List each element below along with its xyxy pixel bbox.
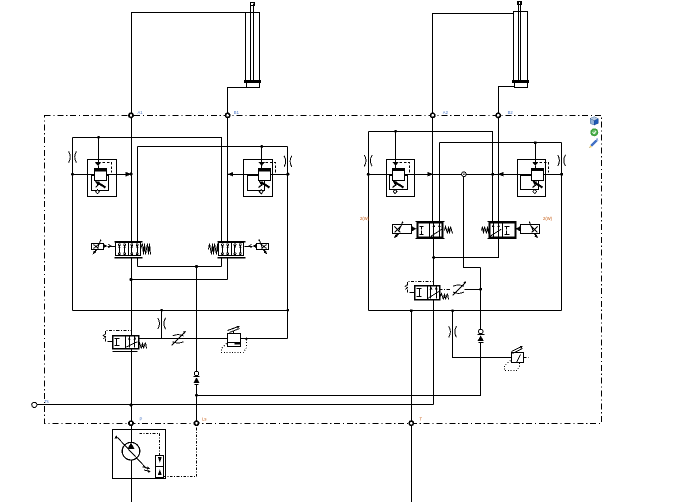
directional valve DV2 top plate (218, 241, 246, 243)
spring unloader (139, 343, 147, 349)
hydraulic cylinder CYL1 barrel (246, 13, 260, 82)
wire bleed rail right (241, 338, 288, 340)
wire pilot feed into compensator CV3 (395, 132, 397, 163)
node B2 border crossing (496, 113, 500, 117)
wire pump riser P1 (131, 280, 133, 336)
compensator valve CV1 (88, 160, 117, 197)
unloader valve body (113, 336, 139, 349)
wire tank rail (37, 404, 434, 406)
wire left group inner crossover (138, 146, 288, 148)
orifice bleed (158, 318, 160, 329)
wire CYL2 rod-side line A2 (433, 14, 514, 223)
solenoid actuator DV1 (92, 244, 104, 250)
wire pump outlet up (131, 430, 133, 443)
orifice right group left edge (364, 155, 366, 166)
solenoid valve SV1 body (418, 223, 443, 238)
spring SV1 (445, 227, 453, 234)
wire orifice drop (161, 311, 163, 339)
pump regulator valves (156, 456, 164, 467)
wire LS gallery (138, 266, 222, 268)
wire left group right edge (287, 147, 289, 339)
wire check riser (480, 268, 482, 330)
node B1 border crossing (226, 113, 230, 117)
wire bleed rail (139, 338, 228, 340)
compensator valve CV3 (387, 160, 415, 197)
node LS tee (195, 394, 198, 397)
pump flow triangle (127, 443, 134, 449)
orifice left group left edge (69, 151, 71, 162)
node feed tick CV1 (97, 136, 100, 139)
node feed tick CV2 (260, 145, 263, 148)
check valve right (478, 329, 483, 334)
svg-text:B2: B2 (508, 110, 514, 115)
wire CYL1 cap-side line B1 (228, 88, 247, 242)
solenoid valve SV2 plates (488, 221, 517, 223)
reducing valve RV1 (228, 334, 241, 347)
solenoid actuator SV1 (393, 225, 412, 234)
wire left group top crossover (73, 138, 222, 242)
orifice right group right edge (558, 155, 560, 166)
wire compensator rail left (73, 174, 132, 176)
wire compensator rail right group (369, 174, 562, 176)
wire compensator rail right (228, 174, 288, 176)
node compensator rail at A1 (130, 173, 133, 176)
arrowhead comp rail B2 (498, 172, 504, 177)
node tank rail crossing (130, 404, 133, 407)
node comp rail right edge (560, 173, 563, 176)
icon green badge (590, 128, 598, 136)
directional valve DV1 bottom plate (115, 257, 143, 259)
node feed tick CV3 (394, 130, 397, 133)
wire CYL2 cap-side line B2 (499, 87, 515, 223)
wire right group bottom edge (369, 310, 562, 312)
wire pump riser below unloader (131, 349, 133, 430)
icon cube (590, 117, 598, 126)
node A2 border crossing (431, 113, 435, 117)
svg-text:B1: B1 (234, 110, 240, 115)
svg-text:A2: A2 (443, 110, 449, 115)
svg-text:2(W): 2(W) (543, 216, 553, 221)
arrowhead compensator rail right (228, 172, 234, 177)
wire plug drop (464, 177, 481, 268)
relief valve RV2 (512, 353, 524, 363)
wire right group top crossover (369, 132, 493, 223)
wire SV2 bottom port (434, 238, 499, 258)
wire LS line down (196, 267, 198, 372)
node T drain border (409, 421, 413, 425)
pilot loop RV2 (505, 361, 520, 371)
node orifice drop tick (160, 309, 163, 312)
directional valve DV2 bottom plate (218, 257, 246, 259)
variable orifice left (173, 335, 184, 336)
wire SV1 bottom port (433, 238, 435, 286)
node SV1 bottom junction (432, 256, 435, 259)
node compensator rail left edge (71, 173, 74, 176)
spring SV2 (482, 227, 489, 234)
wire check lower (197, 343, 481, 396)
svg-text:Ts: Ts (45, 399, 49, 404)
wire LS line lower (196, 385, 198, 424)
solenoid actuator DV2 (257, 244, 269, 250)
wire relief drop (453, 311, 512, 358)
pilot line pump internal (140, 434, 160, 456)
node RV1 pilot tap (245, 338, 247, 340)
node compensator rail right edge (286, 173, 289, 176)
node feed tick CV4 (534, 141, 537, 144)
pump enclosure (113, 430, 166, 479)
hydraulic cylinder CYL1 rod (250, 4, 252, 82)
node comp rail mid (491, 173, 494, 176)
inline valve body (415, 286, 440, 300)
orifice left group right edge (284, 156, 286, 167)
wire DV1 lower port outer (131, 258, 133, 280)
wire DV1 lower port inner (137, 258, 139, 267)
node P border crossing (129, 421, 133, 425)
wire CYL1 rod-side line A1 (132, 13, 246, 242)
pilot line pump LS (164, 424, 197, 477)
pilot flow control right (440, 289, 452, 291)
wire tank rail corner (433, 404, 435, 406)
wire T drain right group (411, 311, 413, 502)
wire left group inner drop left (137, 147, 139, 242)
node LS border crossing (194, 421, 198, 425)
wire tank drop (433, 300, 435, 405)
wire P gallery (132, 279, 228, 281)
plug port symbol (462, 172, 467, 177)
wire pilot feed into compensator CV2 (261, 147, 263, 163)
machine enclosure dash-dot border (45, 116, 602, 424)
solenoid actuator SV2 (521, 225, 540, 234)
node T drain tap (410, 309, 413, 312)
wire DV2 lower port outer (227, 258, 229, 280)
pilot line unloader (108, 341, 113, 343)
node LS gallery tap (195, 265, 198, 268)
wire pilot feed into compensator CV4 (535, 143, 537, 163)
hydraulic cylinder CYL2 flange (513, 81, 529, 83)
wire left group left edge (72, 138, 74, 311)
wire right group right edge (561, 143, 563, 311)
spring DV2 (209, 244, 219, 255)
wire right group inner drop left (439, 143, 441, 223)
node left bottom corner (287, 309, 290, 312)
node relief drop tick (451, 309, 454, 312)
hydraulic cylinder CYL2 rod (518, 2, 520, 82)
node flow control tap (479, 288, 482, 291)
svg-text:2(W): 2(W) (360, 216, 370, 221)
pump circle (122, 442, 140, 460)
arrowhead comp rail A2 (428, 172, 434, 177)
wire right group inner crossover (440, 142, 562, 144)
wire right group left edge (368, 132, 370, 311)
wire pump suction down (131, 460, 133, 502)
node comp rail left edge (367, 173, 370, 176)
svg-text:A1: A1 (138, 110, 144, 115)
pilot line inline valve (410, 292, 415, 294)
node A1 border crossing (129, 113, 133, 117)
tank port circle (32, 402, 37, 407)
spring DV1 (141, 244, 151, 255)
solenoid valve SV1 plates (416, 221, 445, 223)
check valve LS (194, 371, 199, 376)
icon pencil (589, 139, 598, 148)
directional valve DV1 top plate (115, 241, 143, 243)
hydraulic cylinder CYL1 cap (247, 83, 260, 88)
directional valve DV2 body (219, 243, 244, 256)
svg-text:P: P (140, 417, 143, 422)
pilot loop RV1 (222, 340, 247, 353)
orifice relief drop (449, 326, 451, 337)
svg-text:T: T (420, 417, 423, 422)
pump variable arrow (118, 438, 147, 469)
compensator valve CV2 (244, 160, 273, 197)
node P gallery tap (130, 278, 133, 281)
wire DV2 lower port inner (221, 258, 223, 267)
arrowhead compensator rail left (126, 172, 132, 177)
svg-text:Ls: Ls (202, 417, 206, 422)
directional valve DV1 body (116, 243, 141, 256)
hydraulic cylinder CYL2 cap (515, 83, 528, 88)
compensator valve CV4 (518, 160, 546, 197)
solenoid valve SV2 body (490, 223, 516, 238)
unloader underline (113, 351, 138, 353)
wire left group bottom edge (73, 310, 288, 312)
hydraulic cylinder CYL1 flange (245, 81, 261, 83)
wire pilot feed into compensator CV1 (98, 138, 100, 163)
spring inline valve (441, 294, 449, 300)
pump regulator arrows (143, 467, 150, 472)
hydraulic cylinder CYL2 barrel (514, 12, 528, 82)
